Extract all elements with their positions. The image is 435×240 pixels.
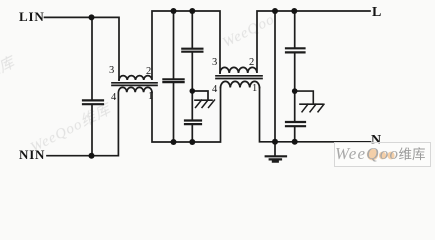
svg-text:维库: 维库 — [399, 147, 426, 162]
svg-text:WeeQoo: WeeQoo — [335, 144, 399, 163]
